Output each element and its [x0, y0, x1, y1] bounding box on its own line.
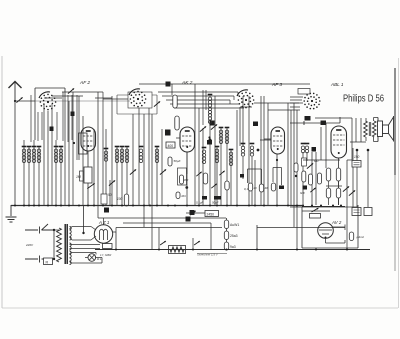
coil L13 osc [208, 95, 213, 206]
resistor R15 [302, 158, 307, 166]
label AF 2 [79, 80, 90, 86]
resistor R11 [248, 183, 252, 191]
wire top bus [139, 83, 310, 85]
coil L2 [27, 147, 32, 163]
wire T3 stem [276, 154, 278, 205]
trimmer C7 [154, 101, 160, 106]
label GW [300, 191, 305, 195]
capacitor C50uF [168, 157, 181, 166]
page bottom edge [2, 307, 398, 309]
wire mixer harp a [103, 96, 112, 205]
tube AK2 [180, 127, 195, 152]
capacitor C11 [104, 208, 109, 213]
svg-text:150: 150 [354, 155, 360, 159]
coil L15 [215, 147, 220, 163]
schematic right border [394, 68, 396, 271]
wire IF h-links [254, 103, 300, 140]
wire output loop [347, 118, 366, 160]
coil L10 [125, 147, 130, 163]
trimmer C24 [349, 190, 355, 195]
wire antenna feed [14, 100, 35, 102]
resistor R8 [203, 173, 207, 184]
trimmer C9 [130, 169, 136, 174]
resistor R3 [101, 194, 107, 204]
resistor R12 [259, 184, 263, 192]
wire lamp loop [70, 253, 103, 264]
svg-text:180: 180 [184, 178, 189, 182]
capacitor C42 [279, 186, 284, 190]
wire det verticals [303, 123, 326, 205]
svg-text:2450: 2450 [207, 212, 215, 216]
label 100 [117, 197, 123, 201]
wire S1 taps [44, 92, 103, 98]
wire pi-link b [273, 168, 282, 186]
resistor R4 [124, 194, 128, 206]
resistor R22 [318, 173, 322, 184]
label AF 3 [271, 82, 282, 88]
capacitor C21 [312, 147, 317, 152]
wire mixer harp c [139, 108, 162, 249]
resistor 25a3 [224, 231, 237, 240]
wire R16 links [303, 160, 342, 188]
capacitor C39 [210, 121, 215, 126]
coil L22 [305, 144, 310, 153]
capacitor C12 [166, 82, 171, 87]
resistor R5 [173, 95, 177, 108]
band switch S2 [129, 89, 146, 108]
label 40b [265, 186, 269, 190]
tube AF2 [81, 127, 96, 151]
band switch S4 [303, 93, 320, 110]
label 0.1 [244, 187, 249, 191]
trimmer C32 [196, 172, 201, 176]
label 40a [254, 186, 258, 190]
trimmer C17 [200, 126, 206, 131]
coil L4 [37, 147, 42, 163]
wire mixer harp b [117, 114, 133, 205]
svg-text:A Z 1: A Z 1 [98, 220, 110, 225]
wire heater stubs [159, 228, 193, 250]
wire grid line AV [290, 117, 340, 125]
label AZ1-a [108, 193, 112, 197]
capacitor C27 [364, 208, 372, 216]
trimmer hum1 [160, 241, 166, 245]
svg-text:MD: MD [314, 159, 318, 163]
transformer TR primary [53, 228, 62, 262]
capacitor C4 [71, 112, 75, 117]
wire S1 inner verticals [31, 92, 77, 160]
wire S1 box [35, 88, 65, 140]
speaker [374, 116, 394, 142]
svg-text:0,1µF: 0,1µF [196, 201, 203, 205]
svg-text:50µF: 50µF [212, 201, 219, 205]
svg-text:40: 40 [254, 186, 258, 190]
trimmer C23 [343, 186, 349, 191]
mains switch [25, 224, 55, 263]
svg-text:Rkt: Rkt [182, 194, 186, 198]
coil L14 [208, 111, 211, 124]
label ABL 1 [330, 82, 344, 87]
svg-text:AF 3: AF 3 [271, 82, 282, 88]
page right edge [397, 58, 399, 308]
svg-text:AK 2: AK 2 [181, 80, 193, 86]
wire bus227 [116, 227, 345, 229]
wire T1 stem [87, 151, 89, 167]
label caption [197, 253, 227, 257]
svg-text:0,1: 0,1 [244, 187, 249, 191]
grid box T1 [73, 133, 87, 154]
resistor Rkt [176, 192, 186, 199]
svg-text:9a3: 9a3 [230, 245, 236, 249]
wire antenna down [14, 101, 16, 205]
label AV 2 [331, 220, 342, 225]
trimmer C-ant [16, 97, 22, 102]
capacitor C19 [321, 121, 327, 126]
label 150 [354, 155, 360, 159]
wire B+ 218 [98, 217, 226, 219]
capacitor C30 [103, 244, 113, 249]
resistor Rfield [169, 246, 186, 254]
trimmer T1k [87, 183, 94, 188]
capacitor C14 [207, 136, 212, 144]
coil L23 [202, 148, 207, 164]
wire det harp [288, 103, 297, 249]
resistor 9a3 [224, 242, 235, 250]
wire S4 box [298, 89, 310, 95]
coil L6 [59, 147, 64, 163]
resistor R13 [271, 183, 275, 191]
ground [6, 205, 17, 222]
trimmer hum2 [194, 241, 200, 245]
wire riser 257 [256, 225, 258, 250]
band switch S3 [237, 90, 254, 109]
capacitor C26 [352, 208, 361, 216]
tube AF3 [271, 127, 285, 154]
label LY GBR [100, 253, 112, 257]
resistor R24 [294, 163, 298, 177]
coil L18 [229, 150, 234, 166]
resistor R9 [225, 181, 229, 190]
wire IF harp b [237, 96, 261, 205]
resistor R21 [309, 174, 313, 185]
capacitor C37 [303, 186, 308, 190]
resistor R17 [336, 168, 340, 181]
wire RF harp d [73, 92, 98, 218]
transformer OT [364, 118, 376, 142]
coil L9 [120, 147, 125, 163]
capacitor C36 [212, 196, 221, 205]
capacitor C3 [50, 127, 54, 132]
tube AZ1 [94, 225, 112, 243]
bus249 junctions [115, 248, 348, 250]
svg-text:D.L.: D.L. [97, 257, 103, 261]
wire AuW column [226, 218, 228, 249]
coil L3 [32, 147, 37, 163]
trimmer C15 [211, 124, 217, 129]
wire T4 stem [338, 158, 340, 205]
svg-text:AF 2: AF 2 [79, 80, 90, 86]
wire AZ1 top [103, 218, 105, 225]
coil L8 [115, 147, 120, 163]
wire fieldcoil line [186, 212, 205, 214]
label 220V [25, 243, 34, 247]
wire RF harp a [24, 140, 39, 205]
transformer TR secondary HT [70, 227, 72, 265]
coil L7 [104, 149, 109, 162]
label A Z 1 [98, 220, 110, 225]
coil L11 [139, 147, 144, 163]
ground bus junctions [14, 204, 342, 206]
resistor R19 [336, 188, 340, 205]
wire IF harp a [215, 96, 231, 205]
svg-text:100: 100 [117, 197, 123, 201]
wire plate line [315, 117, 352, 119]
wire S3 box [240, 96, 268, 205]
wire bus249 [95, 249, 370, 251]
svg-text:AuW1: AuW1 [230, 223, 239, 227]
resistor R7 [178, 152, 189, 205]
fuse R [44, 258, 53, 265]
capacitor C31 [349, 232, 364, 241]
coil L20 [250, 144, 255, 157]
coil L17 [225, 128, 230, 144]
capacitor C25 [352, 161, 361, 168]
capacitor C400 [166, 142, 175, 148]
capacitor C13 [165, 130, 171, 136]
capacitor C29 [190, 210, 196, 215]
tube AV2 [318, 223, 334, 239]
coil L5 [54, 147, 59, 163]
trimmer C8 [109, 180, 115, 185]
coil L12 [155, 147, 160, 163]
svg-text:40: 40 [265, 186, 269, 190]
wire S1-S2 link [95, 92, 128, 140]
resistor R16 [326, 168, 330, 181]
capacitor C18 [209, 139, 212, 142]
svg-text:GW: GW [300, 191, 305, 195]
coil L16 [219, 128, 224, 144]
trimmer C2 [68, 88, 74, 93]
resistor R6 [175, 116, 179, 130]
wire T2 leads [172, 84, 187, 174]
page left edge [1, 56, 3, 308]
resistor 2450 [205, 211, 219, 217]
svg-text:25a3: 25a3 [230, 234, 238, 238]
transformer TR core [65, 224, 67, 264]
capacitor C20 [305, 116, 311, 121]
wire S2 box [117, 92, 157, 114]
ground bus [11, 206, 345, 207]
wire HT taps [70, 245, 101, 249]
wire AV2 box [290, 205, 358, 248]
antenna [9, 82, 22, 102]
trimmer C22 [307, 163, 313, 168]
wire RF harp c [56, 92, 69, 205]
resistor R18 [326, 188, 330, 205]
trimmer C38 [310, 188, 315, 192]
wire AZ1 leads [113, 228, 116, 233]
trimmer C34 [211, 184, 216, 188]
wire filament loop [70, 227, 97, 241]
capacitor C28 [186, 217, 191, 222]
resistor AuW1 [224, 220, 239, 229]
wire box top [123, 223, 211, 249]
wire osc staircase [158, 92, 244, 108]
trimmer C33 [219, 171, 224, 175]
svg-text:400: 400 [168, 144, 174, 148]
svg-text:220V: 220V [25, 243, 34, 247]
lamp [88, 254, 103, 262]
trimmer C10 [160, 169, 166, 174]
wire T2 right [195, 84, 203, 205]
svg-text:Gezeichnet 125 V: Gezeichnet 125 V [197, 253, 218, 257]
junction J1 [257, 149, 260, 152]
resistor R2 [80, 171, 84, 181]
svg-text:1M: 1M [76, 175, 81, 179]
wire S4 taps [290, 97, 303, 107]
wire riser 116 [115, 232, 117, 250]
junction J3 [367, 149, 370, 152]
wire riser 83 [82, 206, 84, 234]
wire right drops [347, 148, 368, 249]
svg-text:50: 50 [108, 193, 112, 197]
capacitor C40 [253, 122, 258, 127]
wire RF harp b [44, 104, 52, 205]
coil L19 [241, 144, 246, 157]
resistor R23 [302, 171, 306, 182]
capacitor C41 [240, 174, 244, 178]
label 10k [76, 175, 81, 179]
label MD [314, 159, 318, 163]
label AK 2 [181, 80, 193, 86]
band switch S1 [39, 92, 56, 111]
wire AV2 leads [326, 225, 346, 244]
resistor R20 [310, 208, 321, 218]
label Philips D 56 [343, 93, 384, 105]
wire T3 grid [264, 138, 271, 140]
svg-text:AV 2: AV 2 [331, 220, 342, 225]
capacitor C35 [196, 196, 207, 205]
svg-text:50µF: 50µF [174, 159, 181, 163]
wire pi-link a [248, 169, 262, 184]
wire AVC bus [35, 100, 130, 102]
svg-text:R: R [46, 260, 49, 264]
wire osc verticals [203, 90, 206, 125]
svg-text:µAnd: µAnd [357, 235, 364, 239]
resistor R1 [84, 167, 92, 205]
coil L1 [22, 147, 27, 163]
coil L21 [301, 144, 306, 153]
svg-text:ABL 1: ABL 1 [330, 82, 344, 87]
svg-text:Philips D 56: Philips D 56 [343, 93, 384, 105]
junction J2 [356, 149, 359, 152]
tube AL4 [331, 126, 347, 158]
